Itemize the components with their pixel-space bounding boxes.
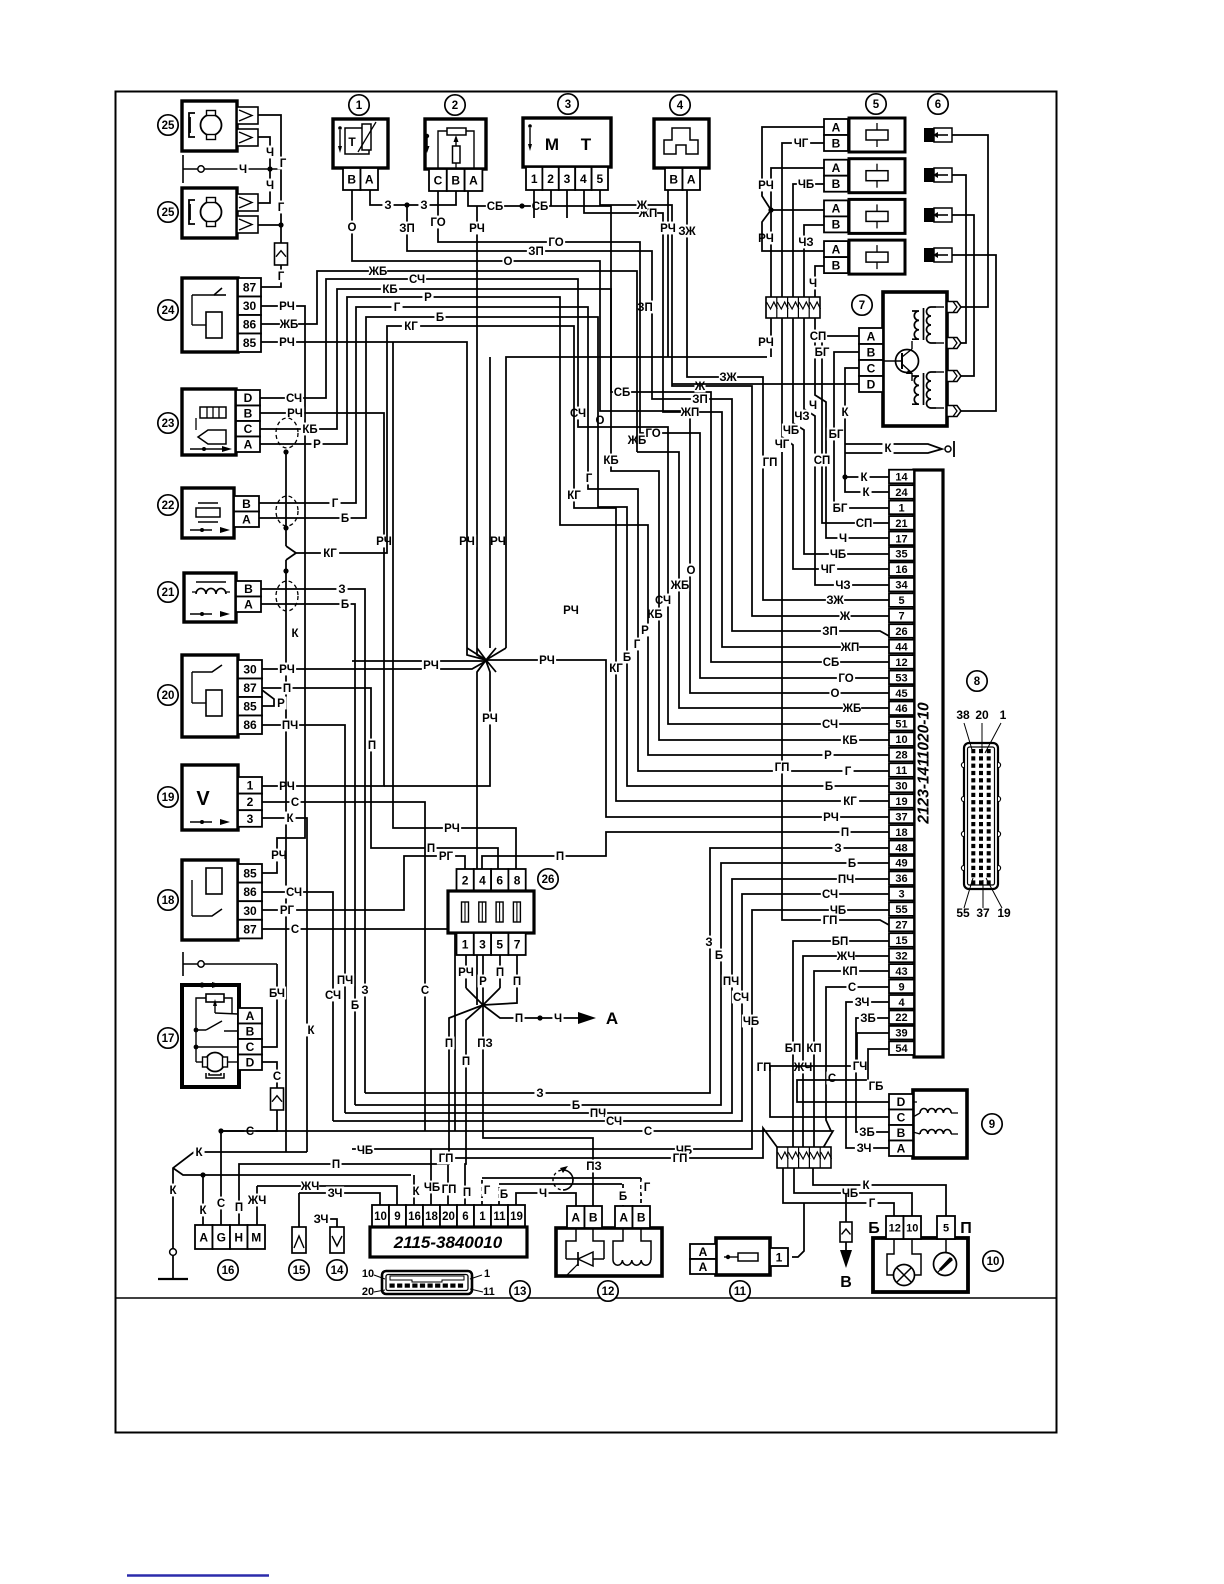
wire ЖЧ run bottom (257, 1186, 397, 1205)
svg-text:12: 12 (889, 1222, 901, 1234)
svg-text:22: 22 (895, 1012, 907, 1024)
svg-text:Г: Г (845, 766, 852, 778)
svg-text:ЗЖ: ЗЖ (678, 226, 696, 238)
wire Г 2115.1 to 12 (481, 1178, 483, 1205)
РЧ from X1 down to 19.1 (384, 661, 490, 786)
svg-text:4: 4 (898, 997, 905, 1009)
svg-text:Ч: Ч (809, 400, 817, 412)
svg-text:П: П (841, 827, 849, 839)
wire РЧ 24.30 (261, 306, 305, 873)
svg-text:О: О (596, 415, 605, 427)
svg-text:КБ: КБ (603, 455, 618, 467)
svg-text:СП: СП (856, 518, 873, 530)
svg-text:19: 19 (162, 792, 175, 804)
svg-text:ЗЧ: ЗЧ (855, 997, 870, 1009)
svg-text:Б: Б (436, 312, 444, 324)
svg-text:СЧ: СЧ (286, 887, 302, 899)
wire 3.1 down (533, 190, 535, 218)
wire ЧБ run (430, 1149, 432, 1205)
svg-text:ГП: ГП (673, 1153, 688, 1165)
svg-text:К: К (169, 1185, 177, 1197)
svg-text:Т: Т (348, 135, 356, 149)
svg-text:B: B (867, 345, 876, 359)
X1 junction diagonals (467, 648, 506, 660)
relay 24 (182, 278, 238, 352)
svg-text:ЖБ: ЖБ (842, 703, 862, 715)
label 9 (982, 1114, 1002, 1134)
wire Г to relay 24 pin 87 (261, 265, 281, 287)
wire ЖЧ ECU 32 (803, 956, 889, 1147)
svg-text:3: 3 (247, 812, 254, 826)
wire ЖБ to ECU 46 (637, 452, 889, 708)
svg-text:О: О (831, 688, 840, 700)
dashes on top edge of 17 (196, 984, 222, 987)
wire ЖП from 3.4 (584, 190, 889, 647)
svg-text:ЖЧ: ЖЧ (300, 1181, 320, 1193)
svg-text:3: 3 (479, 937, 486, 951)
svg-text:20: 20 (162, 690, 175, 702)
label 12 (598, 1281, 618, 1301)
connector face 13 (382, 1271, 472, 1294)
svg-text:30: 30 (895, 780, 907, 792)
svg-text:ЗЧ: ЗЧ (857, 1143, 872, 1155)
svg-text:D: D (246, 1056, 255, 1070)
svg-text:РЧ: РЧ (376, 536, 392, 548)
РЧ run through X1 (262, 661, 486, 669)
svg-text:ЗБ: ЗБ (860, 1013, 875, 1025)
svg-text:К: К (195, 1147, 203, 1159)
svg-text:7: 7 (514, 937, 521, 951)
resistor in 17 (206, 994, 224, 1002)
svg-text:Б: Б (351, 1000, 359, 1012)
svg-text:A: A (199, 1230, 208, 1244)
svg-text:3: 3 (565, 99, 571, 111)
svg-text:С: С (246, 1126, 254, 1138)
svg-text:РЧ: РЧ (444, 823, 460, 835)
svg-text:Б: Б (715, 950, 723, 962)
svg-text:V: V (196, 788, 210, 810)
К ignition switch wire (845, 444, 942, 453)
label 2 (445, 95, 465, 115)
svg-text:РЧ: РЧ (758, 180, 774, 192)
svg-text:21: 21 (162, 587, 175, 599)
svg-text:П: П (513, 976, 521, 988)
svg-text:C: C (867, 361, 876, 375)
svg-text:Б: Б (341, 599, 349, 611)
svg-text:5: 5 (596, 172, 603, 186)
svg-text:2: 2 (547, 172, 554, 186)
svg-text:ЧБ: ЧБ (798, 179, 814, 191)
svg-text:19: 19 (510, 1211, 523, 1223)
svg-text:1: 1 (479, 1211, 486, 1223)
svg-text:ЗЧ: ЗЧ (314, 1214, 329, 1226)
svg-text:РЧ: РЧ (279, 301, 295, 313)
svg-text:ЗЖ: ЗЖ (826, 595, 844, 607)
label 18 (158, 890, 178, 910)
svg-text:11: 11 (493, 1211, 506, 1223)
svg-text:ЖБ: ЖБ (279, 319, 299, 331)
svg-text:С: С (291, 797, 299, 809)
svg-text:ПЧ: ПЧ (282, 720, 298, 732)
wire Ч inj4.B (815, 266, 824, 298)
svg-text:2: 2 (462, 873, 469, 887)
coil in 12 (613, 1228, 623, 1260)
svg-text:РЧ: РЧ (490, 536, 506, 548)
wire ГП run (448, 1128, 777, 1205)
svg-text:30: 30 (243, 663, 257, 677)
label 5 (866, 94, 886, 114)
fuse row1 bottom drops (770, 318, 772, 357)
svg-text:B: B (244, 582, 253, 596)
svg-text:16: 16 (895, 564, 907, 576)
wire СБ from 2.A (468, 190, 889, 662)
wire Г 22.B (259, 307, 889, 771)
svg-text:11: 11 (483, 1286, 495, 1298)
svg-text:6: 6 (496, 873, 503, 887)
svg-text:10: 10 (374, 1211, 387, 1223)
svg-text:32: 32 (895, 950, 907, 962)
fuse box 11 (716, 1238, 770, 1275)
svg-text:СБ: СБ (614, 387, 631, 399)
X2 junction (466, 988, 500, 1005)
svg-text:C: C (897, 1111, 906, 1125)
svg-text:B: B (451, 173, 460, 187)
РЧ rail injectors (762, 127, 824, 210)
svg-text:СЧ: СЧ (606, 1116, 622, 1128)
svg-text:К: К (884, 443, 892, 455)
svg-text:B: B (347, 172, 356, 186)
svg-text:КГ: КГ (609, 663, 623, 675)
svg-text:D: D (244, 391, 253, 405)
output terminals 7 (947, 302, 961, 313)
svg-text:11: 11 (734, 1286, 747, 1298)
svg-text:Ж: Ж (694, 381, 706, 393)
injectors 5 (824, 119, 848, 135)
svg-text:РЧ: РЧ (271, 850, 287, 862)
svg-text:П: П (496, 967, 504, 979)
К run y1175 (173, 1168, 411, 1175)
connector face 8 (964, 743, 998, 889)
svg-text:О: О (687, 565, 696, 577)
label 10 (983, 1251, 1003, 1271)
shield drain 22-21 (285, 560, 287, 571)
sensor 23 (182, 389, 236, 455)
wire ЧГ inj1.B (782, 143, 824, 298)
wire О from 1.B (352, 190, 889, 693)
wire Ч from motor 25a (258, 137, 270, 169)
svg-text:7: 7 (898, 611, 904, 623)
wire 3.3 down (566, 190, 568, 218)
svg-text:П: П (462, 1056, 470, 1068)
svg-text:D: D (867, 377, 876, 391)
svg-text:БГ: БГ (829, 429, 844, 441)
svg-text:85: 85 (243, 700, 257, 714)
svg-text:14: 14 (895, 471, 908, 483)
sensor 1 (coolant temp) (333, 119, 388, 168)
svg-text:B: B (832, 136, 841, 150)
svg-text:СЧ: СЧ (822, 719, 838, 731)
П run y1164 (476, 828, 478, 1005)
svg-text:Б: Б (825, 781, 833, 793)
svg-text:4: 4 (677, 100, 684, 112)
svg-text:СБ: СБ (487, 201, 504, 213)
svg-text:Ч: Ч (239, 164, 247, 176)
svg-text:К: К (862, 1180, 870, 1192)
svg-text:М: М (545, 135, 559, 154)
svg-text:ЧБ: ЧБ (842, 1188, 858, 1200)
svg-text:2123-1411020-10: 2123-1411020-10 (916, 702, 933, 825)
svg-text:РЧ: РЧ (423, 660, 439, 672)
svg-text:ГО: ГО (645, 428, 660, 440)
svg-text:85: 85 (243, 867, 257, 881)
svg-text:A: A (867, 329, 876, 343)
svg-text:БГ: БГ (833, 503, 848, 515)
fuse link in Г wire (275, 243, 288, 265)
label 17 (158, 1028, 178, 1048)
wire ЧЗ inj3.B (804, 225, 824, 298)
svg-text:ГБ: ГБ (869, 1081, 884, 1093)
svg-text:Г: Г (644, 1182, 651, 1194)
svg-text:A: A (832, 161, 841, 175)
wire З run (365, 848, 889, 1093)
svg-text:РЧ: РЧ (758, 233, 774, 245)
svg-text:КГ: КГ (567, 490, 581, 502)
svg-text:ЧЗ: ЧЗ (798, 237, 813, 249)
svg-text:ЧБ: ЧБ (830, 549, 846, 561)
wire Б 22.A (259, 317, 889, 786)
lamp in 10 (887, 1239, 894, 1275)
svg-text:А: А (606, 1009, 618, 1028)
svg-text:З: З (338, 584, 345, 596)
svg-text:10: 10 (987, 1256, 1000, 1268)
wire С 17.D down through fuse (262, 1062, 277, 1088)
label 19 (158, 787, 178, 807)
svg-text:ПЗ: ПЗ (477, 1038, 492, 1050)
ignition coils in 7 (927, 307, 937, 343)
svg-text:З: З (536, 1088, 543, 1100)
svg-text:Ч: Ч (809, 278, 817, 290)
label 26 (538, 869, 558, 889)
svg-text:РЧ: РЧ (279, 781, 295, 793)
svg-text:КБ: КБ (842, 735, 857, 747)
ECU connector 2123-1411020-10 (914, 470, 943, 1057)
svg-text:П: П (515, 1013, 523, 1025)
wire ЗП from З junction to ECU 26 (407, 205, 889, 636)
svg-text:К: К (841, 407, 849, 419)
bottom-left rule (127, 1574, 269, 1576)
label 24 (158, 300, 178, 320)
svg-text:22: 22 (162, 500, 175, 512)
svg-text:B: B (832, 258, 841, 272)
svg-text:ЖБ: ЖБ (670, 580, 690, 592)
svg-text:19: 19 (895, 796, 907, 808)
svg-text:A: A (571, 1210, 580, 1224)
svg-text:П: П (427, 843, 435, 855)
svg-text:Б: Б (572, 1100, 580, 1112)
svg-text:48: 48 (895, 842, 907, 854)
svg-text:ЧБ: ЧБ (424, 1182, 440, 1194)
svg-text:1: 1 (1000, 708, 1007, 722)
svg-text:25: 25 (162, 120, 175, 132)
wire Г from motor 25b (258, 224, 281, 226)
П to ECU 18 with cell4 riser (482, 832, 889, 869)
svg-text:КБ: КБ (382, 284, 397, 296)
svg-text:ЗП: ЗП (399, 223, 414, 235)
svg-text:Г: Г (278, 271, 285, 283)
svg-text:1: 1 (776, 1250, 783, 1264)
svg-text:ПЧ: ПЧ (838, 874, 854, 886)
svg-text:A: A (246, 1009, 255, 1023)
svg-text:К: К (412, 1186, 420, 1198)
sensor 22 (182, 488, 234, 538)
svg-text:К: К (307, 1025, 315, 1037)
svg-text:Р: Р (277, 698, 285, 710)
svg-text:10: 10 (906, 1222, 918, 1234)
svg-text:21: 21 (895, 518, 907, 530)
svg-text:20: 20 (975, 708, 989, 722)
wire К long vertical from 21 area (285, 571, 287, 1152)
svg-text:Г: Г (484, 1185, 491, 1197)
svg-text:B: B (832, 177, 841, 191)
РЧ from X1 right to ECU 37 (486, 660, 889, 817)
svg-text:20: 20 (442, 1211, 455, 1223)
svg-text:РГ: РГ (439, 851, 454, 863)
svg-text:26: 26 (542, 874, 555, 886)
switch in 17 (196, 1029, 206, 1031)
label 8 (967, 671, 987, 691)
svg-text:27: 27 (895, 920, 907, 932)
svg-text:A: A (832, 120, 841, 134)
svg-text:РЧ: РЧ (458, 967, 474, 979)
svg-text:3: 3 (898, 889, 904, 901)
svg-text:15: 15 (293, 1265, 306, 1277)
svg-text:38: 38 (956, 708, 970, 722)
svg-text:A: A (699, 1260, 708, 1274)
svg-text:15: 15 (895, 935, 907, 947)
svg-text:Г: Г (394, 302, 401, 314)
svg-text:1: 1 (356, 100, 363, 112)
svg-text:КП: КП (842, 966, 857, 978)
svg-text:46: 46 (895, 703, 907, 715)
svg-text:СЧ: СЧ (325, 990, 341, 1002)
svg-text:Г: Г (278, 202, 285, 214)
svg-text:П: П (463, 1187, 471, 1199)
svg-text:РЧ: РЧ (758, 337, 774, 349)
svg-text:ПЗ: ПЗ (586, 1161, 601, 1173)
svg-text:СЧ: СЧ (286, 393, 302, 405)
svg-text:П: П (283, 683, 291, 695)
wire СЧ run (333, 894, 889, 1121)
svg-text:Ч: Ч (539, 1188, 547, 1200)
jumper Р 20.87-85 (262, 690, 274, 706)
svg-text:П: П (235, 1202, 243, 1214)
wire ЗЧ ECU 4 (846, 1002, 889, 1148)
svg-text:ЗЖ: ЗЖ (719, 372, 737, 384)
svg-text:37: 37 (976, 906, 990, 920)
fuse block 26 (457, 869, 474, 891)
svg-text:G: G (217, 1230, 226, 1244)
ignition coils 9 (913, 1090, 967, 1158)
svg-text:ЖБ: ЖБ (368, 266, 388, 278)
svg-text:О: О (348, 222, 357, 234)
svg-text:17: 17 (895, 533, 907, 545)
svg-text:19: 19 (997, 906, 1011, 920)
svg-text:25: 25 (162, 207, 175, 219)
svg-text:B: B (832, 218, 841, 232)
svg-text:РЧ: РЧ (660, 223, 676, 235)
svg-text:C: C (244, 422, 253, 436)
label 1 (349, 95, 369, 115)
svg-text:ЧГ: ЧГ (775, 439, 790, 451)
comp 11 output wire (792, 1203, 804, 1257)
svg-text:35: 35 (895, 549, 907, 561)
svg-text:З: З (834, 843, 841, 855)
В arrow drop (845, 1193, 847, 1222)
svg-text:Ч: Ч (554, 1013, 562, 1025)
П arrow А branch (483, 1005, 578, 1018)
svg-text:СЧ: СЧ (409, 274, 425, 286)
svg-text:КГ: КГ (843, 796, 857, 808)
svg-text:86: 86 (243, 885, 257, 899)
connector 16 (195, 1225, 213, 1249)
РЧ from X1 down-left (477, 660, 486, 828)
LED diode in 12 (566, 1228, 576, 1259)
svg-text:Р: Р (313, 439, 321, 451)
wire РЧ from СБ node down to X1 (477, 206, 486, 660)
wire РЧ 24.85 (261, 342, 486, 660)
svg-text:ЧБ: ЧБ (743, 1016, 759, 1028)
unit 17 (EGR/pump) (182, 985, 239, 1087)
svg-text:5: 5 (873, 99, 880, 111)
svg-text:16: 16 (222, 1265, 235, 1277)
svg-text:B: B (637, 1210, 646, 1224)
wire Ч to motor 25b (258, 169, 270, 203)
svg-text:З: З (384, 200, 391, 212)
sensor 21 (184, 573, 236, 622)
svg-text:B: B (244, 407, 253, 421)
switch line above 17 (182, 952, 184, 976)
ground symbol (158, 1278, 188, 1280)
wire Ч horizontal with switch contact (182, 155, 184, 183)
svg-text:КП: КП (806, 1043, 821, 1055)
svg-text:ГО: ГО (430, 217, 445, 229)
heater fan motor 25a (182, 101, 237, 151)
plug wires (952, 135, 988, 307)
svg-text:A: A (699, 1245, 708, 1259)
svg-text:87: 87 (243, 281, 257, 295)
svg-text:З: З (705, 937, 712, 949)
wire С 19.2 (262, 802, 425, 1131)
svg-text:С: С (848, 982, 856, 994)
svg-text:БГ: БГ (815, 347, 830, 359)
wire Ч 2115.19 to 12 (516, 1193, 576, 1206)
svg-text:БЧ: БЧ (269, 988, 285, 1000)
sensor 19 (182, 765, 238, 830)
wire С 18.87 (262, 929, 455, 1131)
svg-text:Б: Б (500, 1189, 508, 1201)
wire ГЧ ECU 39 (770, 1033, 889, 1117)
wire К net ground (173, 1152, 307, 1248)
connector block 2115-3840010 (372, 1205, 389, 1227)
wire КГ to ECU 19 (296, 326, 889, 801)
svg-text:Б: Б (848, 858, 856, 870)
svg-text:10: 10 (362, 1268, 374, 1280)
svg-text:18: 18 (162, 895, 175, 907)
twisted pair ellipse 23 (276, 418, 298, 448)
svg-text:РЧ: РЧ (279, 664, 295, 676)
svg-text:П: П (332, 1159, 340, 1171)
shield drain 23 (285, 452, 287, 546)
